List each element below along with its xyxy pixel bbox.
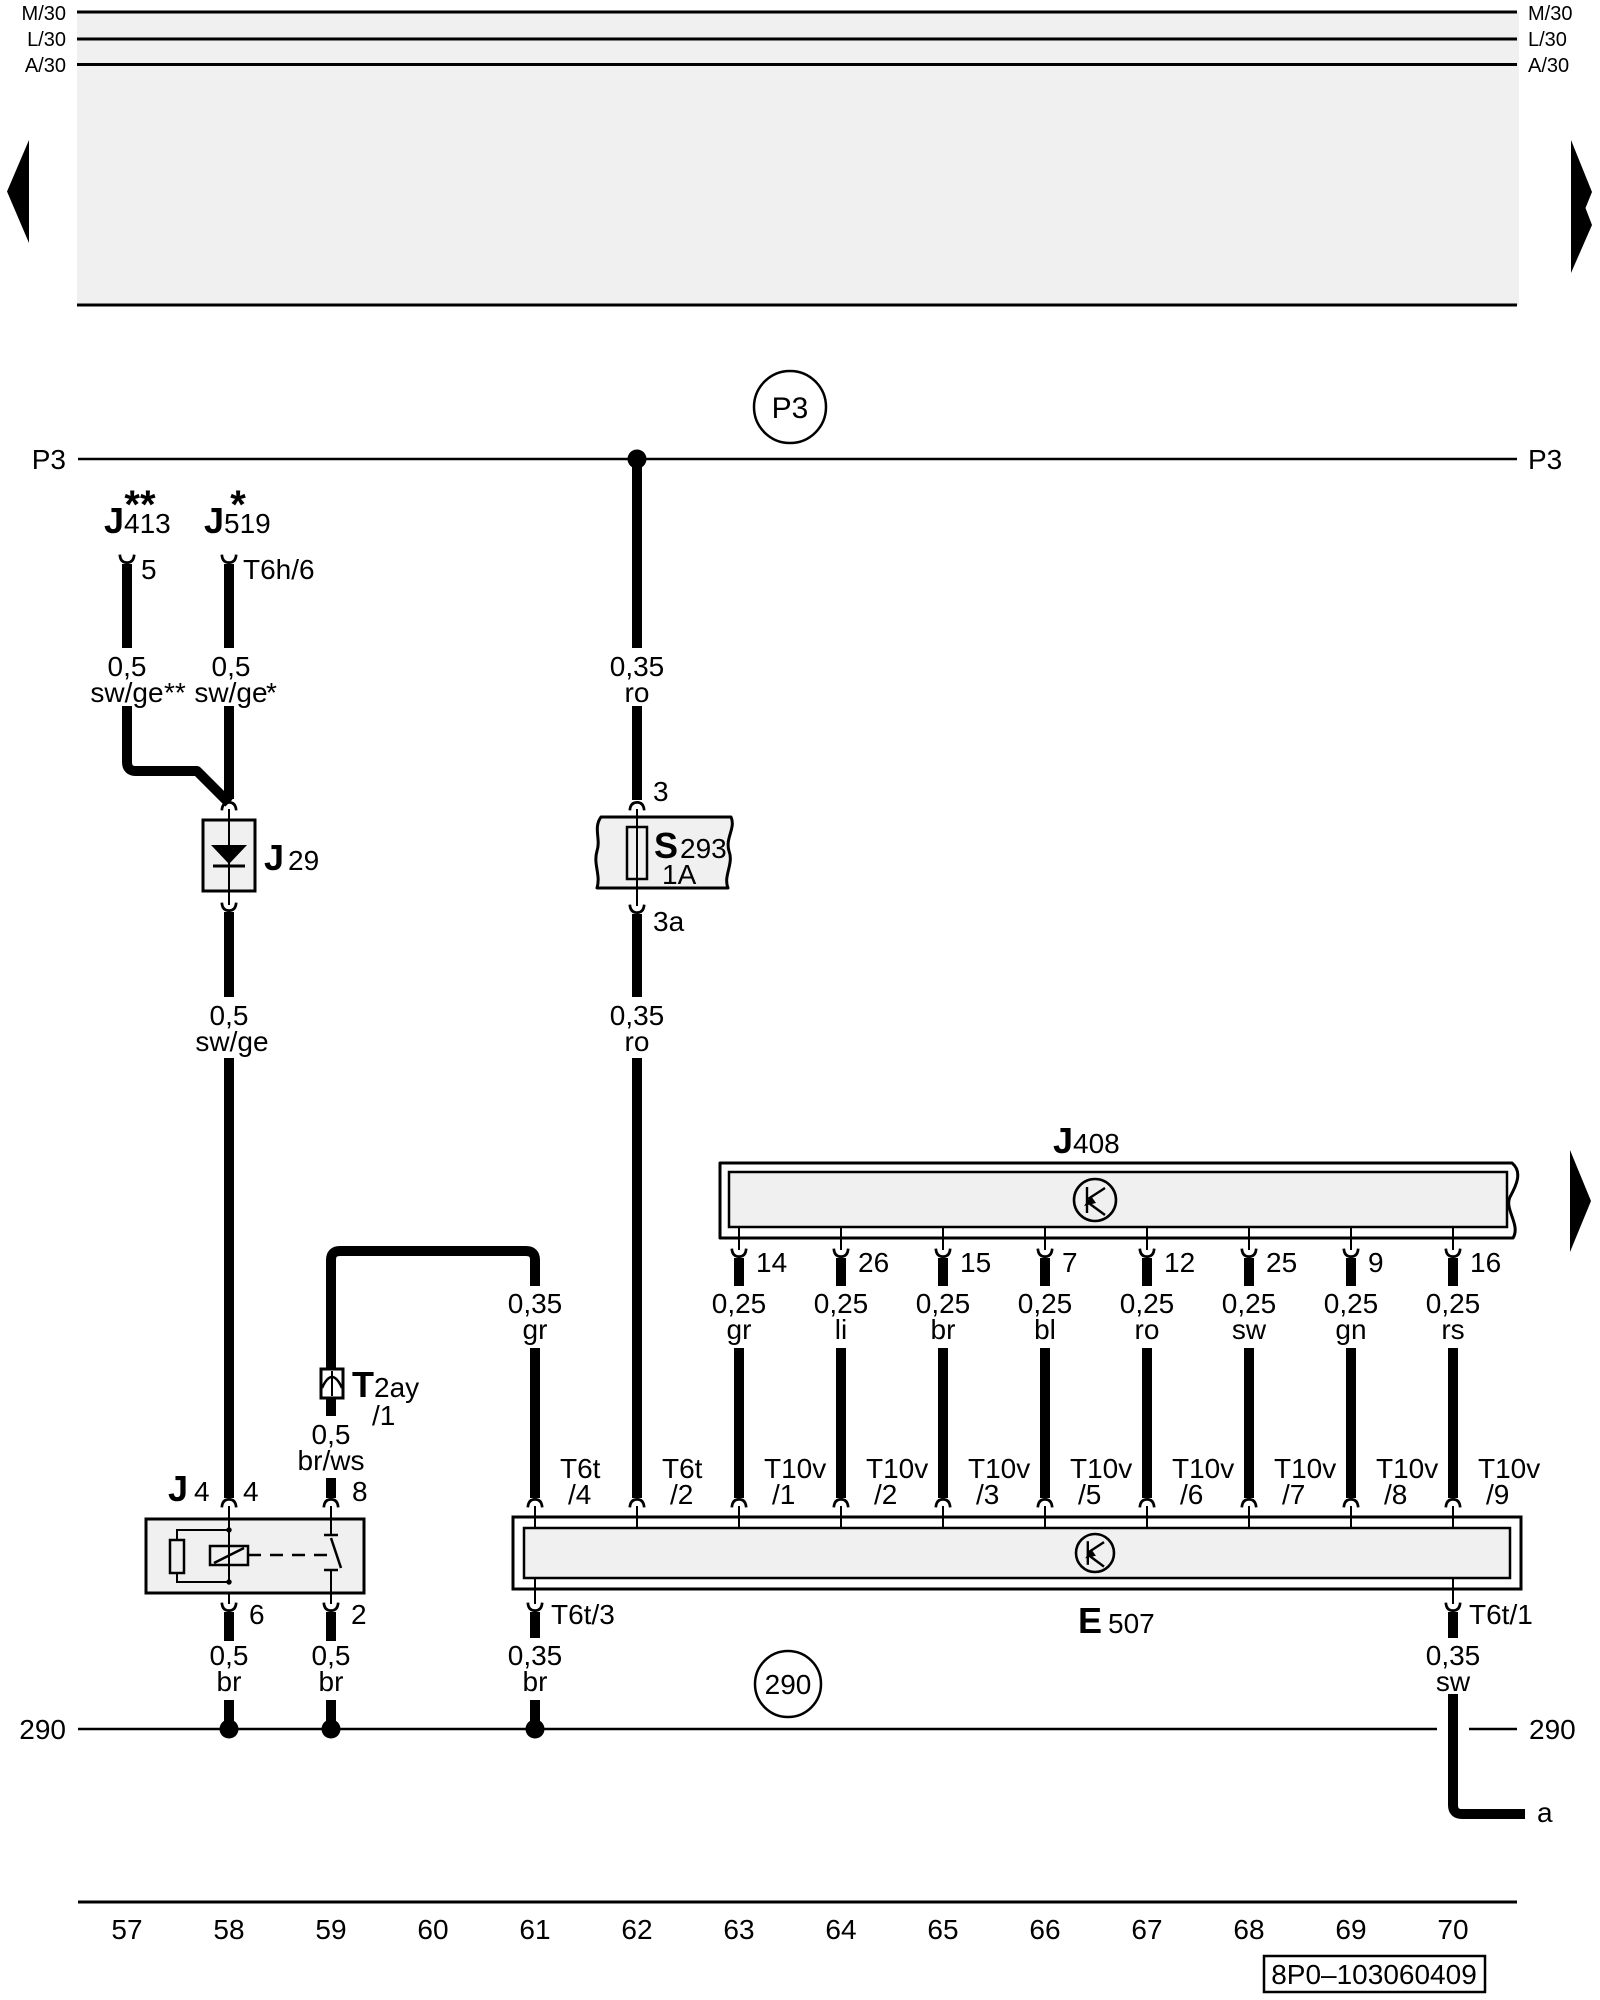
connector below J29: [222, 903, 236, 911]
J408 pin 26: [840, 1227, 842, 1250]
J408 outer box torn right: [720, 1163, 1518, 1238]
E507 inner box: [524, 1528, 1510, 1578]
svg-text:290: 290: [19, 1714, 66, 1745]
svg-text:sw: sw: [1232, 1314, 1267, 1345]
svg-text:7: 7: [1062, 1247, 1078, 1278]
svg-text:**: **: [164, 677, 186, 708]
svg-text:L/30: L/30: [27, 29, 66, 51]
svg-text:8: 8: [352, 1476, 368, 1507]
svg-text:57: 57: [111, 1914, 142, 1945]
svg-text:a: a: [1537, 1797, 1553, 1828]
svg-text:62: 62: [621, 1914, 652, 1945]
wire 0,35 gr to E507: [530, 1348, 540, 1498]
connector T6h/6 of J519: [222, 555, 236, 563]
J408 pin 9: [1350, 1227, 1352, 1250]
E507 top pin T6t/2: [630, 1499, 644, 1507]
wire 0,5 sw/ge below J29: [224, 912, 234, 997]
svg-text:6: 6: [249, 1599, 265, 1630]
svg-text:14: 14: [756, 1247, 787, 1278]
E507 top pin T10v/6: [1140, 1499, 1154, 1507]
E507 top pin T10v/1: [732, 1499, 746, 1507]
svg-text:66: 66: [1029, 1914, 1060, 1945]
svg-text:16: 16: [1470, 1247, 1501, 1278]
svg-text:gn: gn: [1335, 1314, 1366, 1345]
E507 outer box: [513, 1517, 1521, 1589]
J4 pin 4 connector: [222, 1499, 236, 1507]
J4 pin 8 connector: [324, 1499, 338, 1507]
svg-text:3: 3: [653, 776, 669, 807]
E507 top pin T10v/2: [834, 1499, 848, 1507]
svg-text:rs: rs: [1441, 1314, 1464, 1345]
svg-text:gr: gr: [523, 1314, 548, 1345]
J408 K symbol: [1074, 1179, 1116, 1221]
rail A/30: [77, 63, 1517, 66]
wire 0,25 gn: [1346, 1258, 1356, 1286]
E507 top pin T10v/5: [1038, 1499, 1052, 1507]
svg-text:/4: /4: [568, 1479, 591, 1510]
svg-text:T6t/3: T6t/3: [551, 1599, 615, 1630]
svg-text:60: 60: [417, 1914, 448, 1945]
rail L/30: [77, 38, 1517, 41]
gray bus band: [77, 12, 1519, 305]
pin line through fuse: [636, 809, 638, 906]
svg-text:ro: ro: [625, 1026, 650, 1057]
E507 top pin T10v/8: [1344, 1499, 1358, 1507]
svg-text:/9: /9: [1486, 1479, 1509, 1510]
rail M/30: [77, 11, 1517, 14]
svg-text:A/30: A/30: [1528, 55, 1569, 77]
wire 0,25 sw: [1244, 1258, 1254, 1286]
J4 pin 2: [324, 1603, 338, 1611]
fuse element: [627, 827, 647, 879]
svg-text:1A: 1A: [662, 859, 697, 890]
E507 K symbol: [1076, 1534, 1114, 1572]
svg-text:290: 290: [1529, 1714, 1576, 1745]
svg-text:**: **: [124, 483, 156, 527]
svg-text:/7: /7: [1282, 1479, 1305, 1510]
svg-text:26: 26: [858, 1247, 889, 1278]
connector pin 3: [630, 802, 644, 810]
wire to 290: [326, 1700, 336, 1729]
svg-text:2: 2: [351, 1599, 367, 1630]
relay J4 box: [146, 1519, 364, 1593]
wire to 290: [224, 1700, 234, 1729]
wire bend joining J413 branch: [127, 706, 229, 803]
svg-text:/2: /2: [874, 1479, 897, 1510]
diode symbol: [211, 845, 247, 864]
wire 0,25 gr: [734, 1258, 744, 1286]
svg-text:br: br: [523, 1666, 548, 1697]
J408 pin 25: [1248, 1227, 1250, 1250]
svg-text:bl: bl: [1034, 1314, 1056, 1345]
wire 0,25 br: [938, 1258, 948, 1286]
svg-text:/5: /5: [1078, 1479, 1101, 1510]
continuation arrow right of J408: [1570, 1150, 1591, 1252]
svg-text:3a: 3a: [653, 906, 685, 937]
connector pin 3a: [630, 905, 644, 913]
svg-text:63: 63: [723, 1914, 754, 1945]
svg-text:/1: /1: [772, 1479, 795, 1510]
wire 0,35 br to 290: [530, 1700, 540, 1729]
connector pin 5 of J413: [120, 555, 134, 563]
svg-text:15: 15: [960, 1247, 991, 1278]
svg-text:70: 70: [1437, 1914, 1468, 1945]
svg-text:P3: P3: [772, 392, 809, 425]
junction on 290: [526, 1720, 545, 1739]
wire 0,5 br/ws: [326, 1398, 336, 1416]
wire 0,35 ro from P3: [632, 459, 642, 648]
E507 top pin T6t/4: [528, 1499, 542, 1507]
svg-text:M/30: M/30: [1528, 3, 1572, 25]
svg-text:25: 25: [1266, 1247, 1297, 1278]
bottom track line: [78, 1901, 1517, 1904]
wire to J4 pin 4: [224, 1058, 234, 1498]
svg-text:sw/ge: sw/ge: [90, 677, 163, 708]
svg-text:8P0–103060409: 8P0–103060409: [1271, 1959, 1477, 1990]
svg-text:br: br: [931, 1314, 956, 1345]
connector above J29: [222, 802, 236, 810]
wire 0,5 sw/ge from J413: [122, 564, 132, 648]
svg-text:/1: /1: [372, 1400, 395, 1431]
diagram id box: [1264, 1956, 1485, 1992]
actuating dashed link: [248, 1554, 328, 1557]
right double continuation arrow: [1571, 140, 1592, 273]
svg-text:ro: ro: [625, 677, 650, 708]
svg-text:br/ws: br/ws: [298, 1445, 365, 1476]
svg-text:12: 12: [1164, 1247, 1195, 1278]
coil bracket: [177, 1530, 229, 1582]
wire 0,25 rs: [1448, 1258, 1458, 1286]
svg-text:69: 69: [1335, 1914, 1366, 1945]
pin line through J29: [228, 809, 230, 905]
J408 pin 7: [1044, 1227, 1046, 1250]
svg-text:59: 59: [315, 1914, 346, 1945]
fuse S293 box (torn edges): [596, 817, 732, 888]
svg-text:T6h/6: T6h/6: [243, 554, 315, 585]
svg-text:/6: /6: [1180, 1479, 1203, 1510]
relay coil: [210, 1546, 248, 1565]
svg-text:4: 4: [243, 1476, 259, 1507]
diode J29 box: [203, 820, 255, 891]
left continuation arrow: [7, 140, 29, 243]
svg-text:65: 65: [927, 1914, 958, 1945]
svg-text:*: *: [230, 483, 246, 527]
band bottom edge: [77, 304, 1517, 307]
svg-text:gr: gr: [727, 1314, 752, 1345]
svg-text:/3: /3: [976, 1479, 999, 1510]
coil resistor: [170, 1540, 184, 1573]
wire 0,5 sw/ge from J519: [224, 564, 234, 648]
wire 0,25 li: [836, 1258, 846, 1286]
J408 inner box: [729, 1172, 1507, 1227]
svg-text:290: 290: [765, 1669, 812, 1700]
wire elbow T2ay to E507 T6t/4: [331, 1251, 535, 1369]
svg-text:sw/ge: sw/ge: [195, 1026, 268, 1057]
J408 pin 16: [1452, 1227, 1454, 1250]
svg-text:64: 64: [825, 1914, 856, 1945]
svg-text:ro: ro: [1135, 1314, 1160, 1345]
svg-text:67: 67: [1131, 1914, 1162, 1945]
svg-text:sw/ge: sw/ge: [194, 677, 267, 708]
svg-text:L/30: L/30: [1528, 29, 1567, 51]
E507 top pin T10v/7: [1242, 1499, 1256, 1507]
svg-text:br: br: [319, 1666, 344, 1697]
J408 pin 15: [942, 1227, 944, 1250]
wire 290: [78, 1728, 1437, 1731]
switch contact: [330, 1506, 332, 1535]
svg-text:P3: P3: [32, 444, 66, 475]
junction on 290: [322, 1720, 341, 1739]
wire P3: [78, 458, 1517, 461]
svg-text:P3: P3: [1528, 444, 1562, 475]
svg-text:M/30: M/30: [22, 3, 66, 25]
E507 top pin T10v/9: [1446, 1499, 1460, 1507]
wire 0,35 sw to a: [1453, 1694, 1525, 1814]
wire 0,25 ro: [1142, 1258, 1152, 1286]
wire 0,35 ro below fuse: [632, 914, 642, 997]
svg-text:9: 9: [1368, 1247, 1384, 1278]
svg-text:A/30: A/30: [25, 55, 66, 77]
svg-text:5: 5: [141, 554, 157, 585]
svg-text:/8: /8: [1384, 1479, 1407, 1510]
svg-text:61: 61: [519, 1914, 550, 1945]
J408 pin 14: [738, 1227, 740, 1250]
node P3 circle: [754, 371, 826, 443]
svg-text:li: li: [835, 1314, 847, 1345]
J4 pin 6: [222, 1603, 236, 1611]
svg-text:58: 58: [213, 1914, 244, 1945]
J408 pin 12: [1146, 1227, 1148, 1250]
E507 bottom pin T6t/1: [1452, 1578, 1454, 1604]
E507 top pin T10v/3: [936, 1499, 950, 1507]
E507 bottom pin T6t/3: [534, 1578, 536, 1604]
svg-text:/2: /2: [670, 1479, 693, 1510]
svg-text:br: br: [217, 1666, 242, 1697]
wire to E507 T6t/2: [632, 1058, 642, 1498]
wire 0,25 bl: [1040, 1258, 1050, 1286]
junction on P3: [628, 450, 647, 469]
svg-text:sw: sw: [1436, 1666, 1471, 1697]
node 290 circle: [755, 1651, 821, 1717]
svg-text:68: 68: [1233, 1914, 1264, 1945]
svg-text:T6t/1: T6t/1: [1469, 1599, 1533, 1630]
wire J519 branch down: [224, 706, 234, 799]
junction on 290: [220, 1720, 239, 1739]
svg-text:*: *: [266, 677, 277, 708]
connector T2ay symbol: [321, 1369, 343, 1398]
